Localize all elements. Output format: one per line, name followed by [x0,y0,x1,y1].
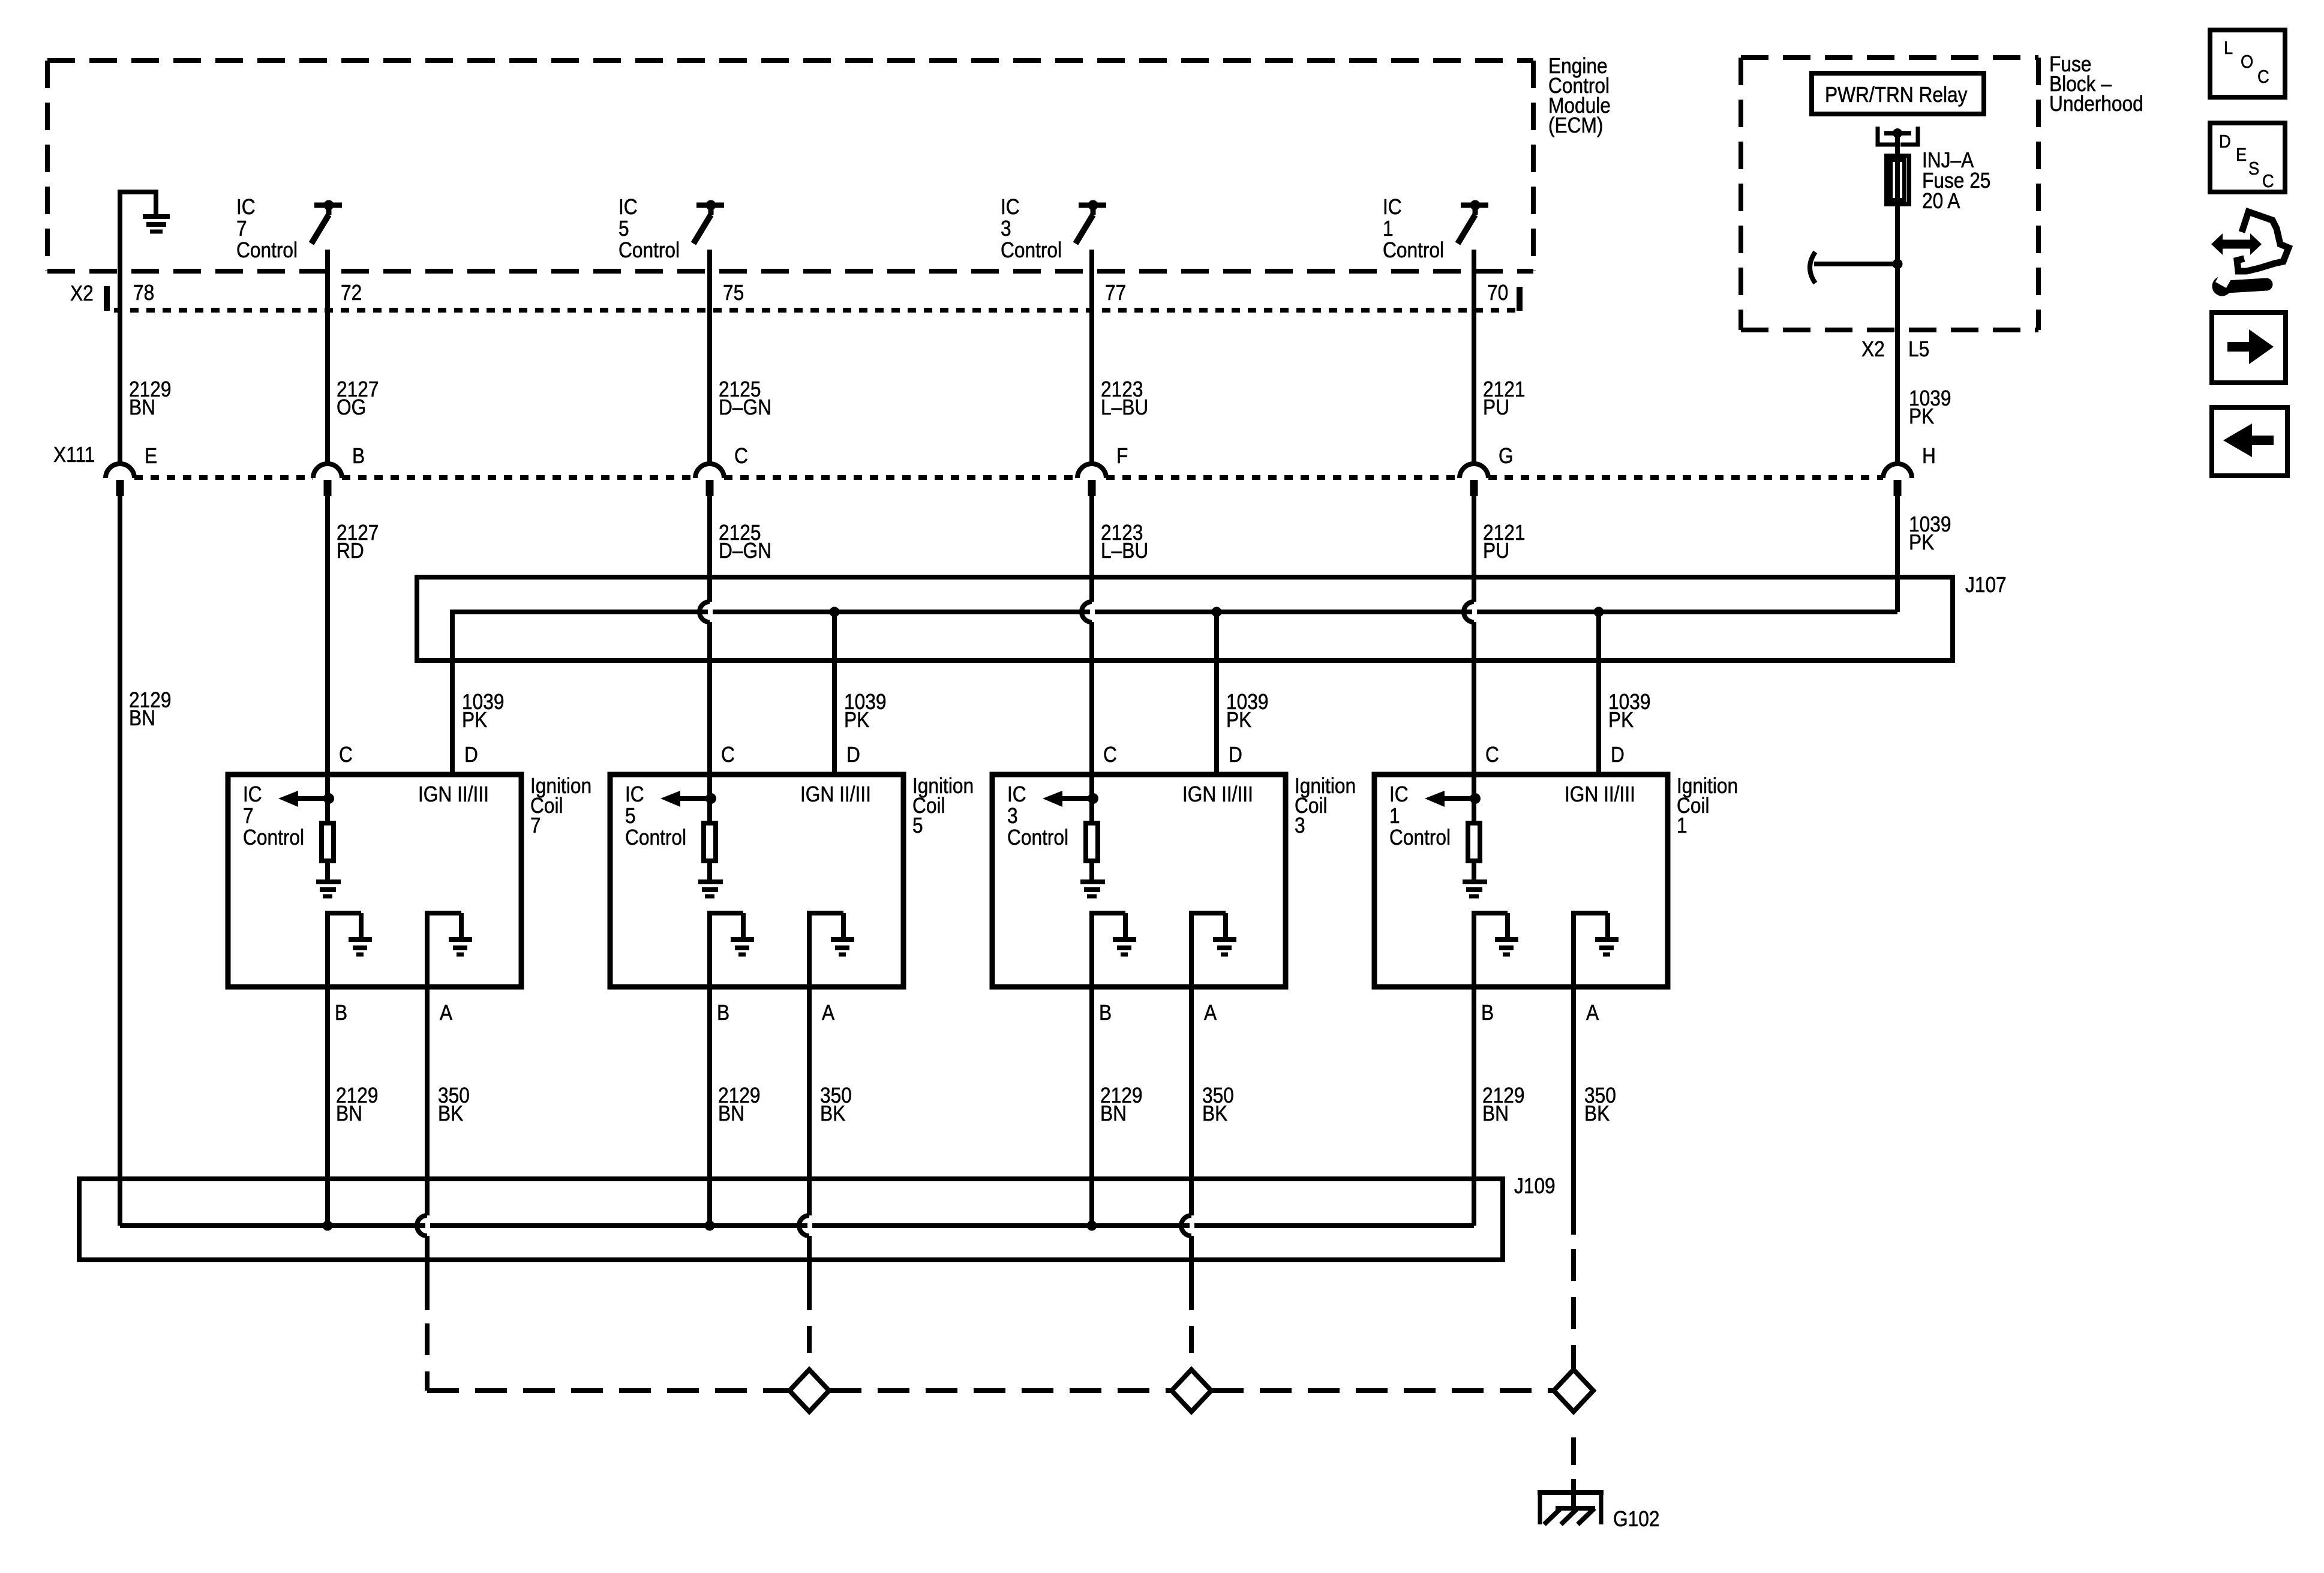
wire from relay through fuse [1895,133,1900,264]
X111 pin E terminal [106,444,157,496]
wire hop over J109 splice at x=1349 [799,1215,809,1236]
wire 2129 BN from coil 1 pin B to J109 [1474,987,1524,1226]
svg-text:D–GN: D–GN [719,539,771,563]
J107 inner bus wire [452,610,1897,614]
IC 3 Control internal label and arrow [1007,782,1098,849]
svg-text:D: D [2219,131,2231,152]
pin B label coil 7 [335,1001,347,1025]
svg-text:IC: IC [243,782,262,806]
internal ground hook pin B coil 5 [707,913,754,987]
svg-text:3: 3 [1007,804,1018,828]
IGN II/III label coil 5 [800,782,871,806]
wire 350 BK from coil 3 pin A [1191,987,1234,1310]
svg-text:C: C [2257,67,2269,87]
svg-text:Control: Control [236,238,298,262]
svg-text:D: D [464,743,478,767]
pin A label coil 7 [440,1001,452,1025]
Ignition Coil 3 outside label [1295,774,1356,837]
svg-text:D–GN: D–GN [719,395,771,419]
svg-text:1: 1 [1389,804,1400,828]
wire 350 BK from coil 5 pin A [809,987,852,1310]
svg-text:5: 5 [912,813,923,837]
pin A label coil 1 [1586,1001,1599,1025]
wire 350 BK from coil 7 pin A [427,987,470,1310]
resistor (coil 3 primary) [1086,775,1098,880]
svg-text:PK: PK [1226,708,1252,732]
svg-text:C: C [339,743,353,767]
svg-text:Control: Control [243,825,304,849]
J109 junction dots [323,1221,1097,1231]
svg-text:IGN II/III: IGN II/III [418,782,489,806]
svg-text:BK: BK [438,1101,464,1125]
Fuse Block - Underhood dashed box [1741,58,2038,330]
ground G102 symbol [1538,1493,1604,1524]
INJ-A fuse label [1922,148,1990,213]
svg-text:IGN II/III: IGN II/III [1182,782,1253,806]
svg-text:Control: Control [618,238,680,262]
svg-text:A: A [822,1001,834,1025]
back arrow icon box [2212,407,2287,476]
wire 1039 PK from X111 H to J107 [1897,496,1951,612]
svg-text:L–BU: L–BU [1101,539,1148,563]
IGN II/III label coil 1 [1565,782,1635,806]
internal ground hook pin A coil 3 [1189,913,1236,987]
svg-text:IC: IC [1383,195,1402,219]
pin C label coil 5 [721,743,735,767]
switch IC 1 Control (ECM driver) [1383,195,1488,262]
svg-text:BK: BK [1584,1101,1610,1125]
svg-text:B: B [335,1001,347,1025]
svg-text:3: 3 [1295,813,1305,837]
svg-text:B: B [1099,1001,1112,1025]
internal ground hook pin A coil 5 [807,913,854,987]
svg-text:X2: X2 [1861,337,1885,361]
svg-text:Control: Control [1389,825,1451,849]
svg-text:IGN II/III: IGN II/III [800,782,871,806]
pin D label coil 7 [464,743,478,767]
wire 2129 BN from coil 3 pin B to J109 [1092,987,1142,1226]
internal ground hook pin B coil 1 [1472,913,1518,987]
svg-text:PK: PK [462,708,488,732]
IGN II/III label coil 3 [1182,782,1253,806]
X111 pin G terminal [1460,444,1514,496]
pin A label coil 5 [822,1001,834,1025]
splice J109 bus outline [79,1179,1503,1260]
resistor (coil 1 primary) [1468,775,1480,880]
LOC icon box [2210,30,2285,97]
svg-text:X2: X2 [70,281,94,305]
IC 1 Control internal label and arrow [1389,782,1481,849]
svg-text:1: 1 [1677,813,1688,837]
X111 pin F terminal [1077,444,1128,496]
X2 pin 70 [1487,281,1508,305]
svg-text:5: 5 [618,217,629,241]
svg-text:IC: IC [236,195,256,219]
svg-text:A: A [440,1001,452,1025]
svg-text:PWR/TRN Relay: PWR/TRN Relay [1825,83,1968,107]
Ignition Coil 7 outside label [530,774,591,837]
svg-text:IC: IC [1007,782,1026,806]
wire 350 BK from coil 1 pin A [1574,987,1616,1235]
svg-text:IC: IC [618,195,638,219]
ECM label [1548,54,1611,137]
wire 2129 BN upper segment [120,192,171,464]
svg-text:IGN II/III: IGN II/III [1565,782,1635,806]
J109 inner bus wire [120,1223,1474,1228]
G102 label [1613,1507,1659,1531]
svg-text:L–BU: L–BU [1101,395,1148,419]
svg-text:(ECM): (ECM) [1548,113,1603,137]
wire 2129 BN from coil 7 pin B to J109 [328,987,378,1226]
svg-text:C: C [721,743,735,767]
pin D label coil 1 [1611,743,1625,767]
svg-text:BN: BN [1482,1101,1509,1125]
wire 2121 PU to ignition coil pin C [1474,496,1525,775]
junction on J107 [1594,607,1604,617]
svg-text:PK: PK [1909,530,1935,554]
IC 5 Control internal label and arrow [625,782,716,849]
svg-text:X111: X111 [53,443,95,467]
X111 pin C terminal [695,444,748,496]
wire 2125 D–GN upper segment [710,250,771,464]
svg-text:Underhood: Underhood [2049,92,2143,116]
fuse INJ-A Fuse 25 20 A symbol [1887,156,1909,205]
DESC icon box [2210,123,2285,192]
switch IC 5 Control (ECM driver) [618,195,724,262]
svg-text:O: O [2241,52,2253,72]
relay PWR/TRN Relay box [1812,73,1984,114]
svg-text:F: F [1116,444,1128,468]
vehicle harness/wrench icon [2211,212,2289,296]
wire 2123 L–BU upper segment [1092,250,1148,464]
X2 pin 72 [341,281,362,305]
pin C label coil 7 [339,743,353,767]
pin D label coil 5 [846,743,860,767]
wire hop over J107 splice at x=1183 [699,602,710,622]
pin D label coil 3 [1229,743,1242,767]
branch wire with connector stub [1810,252,1903,283]
internal ground hook pin B coil 3 [1089,913,1136,987]
pin A label coil 3 [1204,1001,1217,1025]
Ignition Coil 5 outside label [912,774,974,837]
svg-text:Control: Control [1001,238,1062,262]
svg-text:PU: PU [1483,539,1509,563]
dashed ground rail to splices [427,1388,1553,1393]
ground symbol under resistor coil 3 [1080,882,1105,896]
X2 pin 78 [133,281,154,305]
svg-text:BN: BN [1100,1101,1127,1125]
svg-text:Control: Control [1007,825,1068,849]
svg-text:IC: IC [1001,195,1020,219]
X111 pin B terminal [313,444,365,496]
svg-text:20 A: 20 A [1922,189,1960,213]
svg-text:D: D [846,743,860,767]
internal ground hook pin A coil 1 [1571,913,1619,987]
dashed 350 BK drop to ground rail corner [425,1323,430,1391]
svg-text:7: 7 [530,813,541,837]
ground symbol under resistor coil 7 [316,882,341,896]
pin B label coil 3 [1099,1001,1112,1025]
svg-text:PK: PK [1909,404,1935,428]
svg-text:A: A [1204,1001,1217,1025]
ground (ECM internal, IC 7 low reference) [118,190,170,271]
wire 2127 RD to Ignition Coil 7 pin C [328,496,379,775]
wire 2129 BN to J109 [120,496,171,1226]
svg-text:RD: RD [337,539,364,563]
svg-text:G102: G102 [1613,1507,1659,1531]
ground symbol under resistor coil 1 [1463,882,1487,896]
J109 label [1514,1174,1556,1198]
junction on J107 [830,607,840,617]
pin C label coil 1 [1485,743,1499,767]
svg-text:BN: BN [129,706,155,730]
splice diamond at 350 BK (5) [789,1370,829,1412]
svg-text:C: C [1103,743,1117,767]
junction on J107 [1212,607,1222,617]
wire hop over J109 splice at x=1986 [1181,1215,1191,1236]
dashed 350 BK drop to splice diamond [1189,1326,1194,1370]
svg-text:E: E [145,444,157,468]
svg-text:L5: L5 [1908,337,1929,361]
splice diamond at 350 BK (3) [1172,1370,1211,1412]
ignition coil 5 box [610,775,903,987]
svg-text:B: B [1481,1001,1494,1025]
svg-text:OG: OG [337,395,366,419]
svg-text:Control: Control [625,825,686,849]
splice J107 bus outline [417,577,1953,661]
wire hop over J109 splice at x=712 [417,1215,427,1236]
svg-text:C: C [2262,171,2274,191]
wire 1039 PK from J107 to Ignition Coil 5 pin D [834,610,886,775]
Engine Control Module (ECM) dashed box [47,61,1533,271]
svg-text:Control: Control [1383,238,1444,262]
dashed wire from last diamond to G102 [1571,1437,1576,1508]
IC 7 Control internal label and arrow [243,782,334,849]
svg-text:5: 5 [625,804,636,828]
resistor (coil 7 primary) [322,775,334,880]
svg-text:S: S [2248,158,2259,179]
X2 pin 77 [1105,281,1126,305]
svg-text:7: 7 [243,804,254,828]
resistor (coil 5 primary) [704,775,716,880]
wire 2125 D–GN to ignition coil pin C [710,496,771,775]
X2 pin 75 [723,281,744,305]
switch IC 7 Control (ECM driver) [236,195,342,262]
ignition coil 1 box [1374,775,1668,987]
internal ground hook pin A coil 7 [425,913,472,987]
svg-text:D: D [1229,743,1242,767]
ignition coil 7 box [228,775,521,987]
svg-text:H: H [1922,444,1936,468]
ground symbol under resistor coil 5 [698,882,723,896]
wire 2127 OG upper segment [328,250,379,464]
X111 pin H terminal [1883,444,1936,496]
J107 label [1965,573,2007,597]
svg-text:B: B [352,444,365,468]
connector X2 row [70,281,1523,311]
relay output terminal clips [1878,127,1918,145]
dashed 350 BK down to splice diamond [1571,1249,1576,1370]
svg-text:75: 75 [723,281,744,305]
pin C label coil 3 [1103,743,1117,767]
svg-text:G: G [1499,444,1514,468]
dashed 350 BK drop to splice diamond [807,1326,812,1370]
Ignition Coil 1 outside label [1677,774,1738,837]
wire 1039 PK from J107 to Ignition Coil 7 pin D [452,610,504,775]
svg-text:C: C [1485,743,1499,767]
wire hop over J107 splice at x=1820 [1082,602,1092,622]
pin B label coil 1 [1481,1001,1494,1025]
IGN II/III label coil 7 [418,782,489,806]
svg-text:BK: BK [820,1101,846,1125]
svg-text:77: 77 [1105,281,1126,305]
wire 1039 PK from fuse block to X111 [1897,264,1951,464]
internal ground hook pin B coil 7 [325,913,372,987]
ignition coil 3 box [992,775,1286,987]
svg-text:B: B [717,1001,729,1025]
forward arrow icon box [2212,313,2286,383]
wire 1039 PK from J107 to Ignition Coil 1 pin D [1599,610,1650,775]
svg-text:PK: PK [844,708,870,732]
svg-text:IC: IC [625,782,644,806]
wire 2121 PU upper segment [1474,250,1525,464]
splice diamond at 350 BK (1) [1554,1370,1593,1412]
svg-text:BN: BN [718,1101,744,1125]
svg-text:E: E [2236,145,2247,165]
wire 1039 PK from J107 to Ignition Coil 3 pin D [1217,610,1268,775]
wire 2123 L–BU to ignition coil pin C [1092,496,1148,775]
svg-text:PK: PK [1608,708,1634,732]
svg-text:78: 78 [133,281,154,305]
svg-text:BK: BK [1202,1101,1228,1125]
switch IC 3 Control (ECM driver) [1001,195,1106,262]
wire hop over J107 splice at x=2457 [1464,602,1474,622]
svg-text:J109: J109 [1514,1174,1556,1198]
connector X111 row [53,443,1883,478]
pin B label coil 5 [717,1001,729,1025]
svg-text:BN: BN [336,1101,362,1125]
wire 2129 BN from coil 5 pin B to J109 [710,987,760,1226]
svg-text:BN: BN [129,395,155,419]
svg-text:72: 72 [341,281,362,305]
svg-text:A: A [1586,1001,1599,1025]
svg-text:7: 7 [236,217,247,241]
svg-text:3: 3 [1001,217,1011,241]
svg-text:D: D [1611,743,1625,767]
svg-text:70: 70 [1487,281,1508,305]
Fuse Block label [2049,52,2143,116]
svg-text:L: L [2224,38,2233,58]
svg-text:1: 1 [1383,217,1394,241]
svg-text:PU: PU [1483,395,1509,419]
fuse block X2 / L5 pin labels [1861,337,1929,361]
svg-text:C: C [734,444,748,468]
svg-text:IC: IC [1389,782,1409,806]
svg-text:J107: J107 [1965,573,2007,597]
